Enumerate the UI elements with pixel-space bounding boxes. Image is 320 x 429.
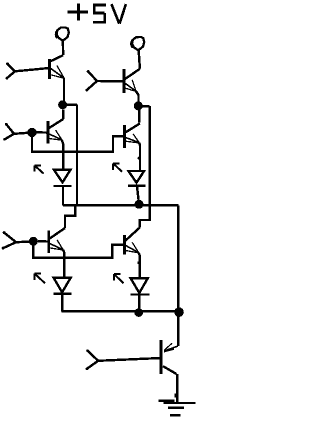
- input fork Q2 base: [85, 70, 97, 91]
- wire D4 cathode: [138, 295, 140, 312]
- junction dot A: [58, 100, 67, 109]
- transistor Q2: [97, 69, 140, 102]
- net M horizontal wire: [63, 204, 178, 206]
- transistor Q6: [124, 228, 140, 279]
- input fork Q7 base: [86, 349, 99, 370]
- wire dot A down to Q3 collector: [49, 110, 63, 128]
- junction dot E: [29, 237, 38, 246]
- junction dot F: [134, 308, 143, 317]
- wire T1 to Q1 collector: [62, 40, 65, 55]
- transistor Q5: [38, 228, 65, 278]
- wire dot A to right: [66, 103, 77, 105]
- wire D3 cathode: [61, 294, 63, 312]
- input fork Q3 base: [3, 123, 32, 141]
- LED D4 arrow: [114, 274, 123, 283]
- LED D3: [53, 278, 71, 294]
- wire step netM to Q5 collector: [65, 205, 75, 228]
- junction dot B: [134, 101, 143, 110]
- wire T2 to Q2 collector: [139, 50, 140, 69]
- LED D4: [131, 278, 150, 294]
- LED D2: [128, 171, 145, 186]
- wire vertical x77 down to net M: [76, 105, 78, 206]
- LED D3 arrow: [35, 274, 46, 284]
- row3 base link wire: [33, 245, 123, 258]
- wire step netM to Q6 collector: [140, 205, 150, 228]
- wire dot B to right: [142, 105, 150, 107]
- junction dot D2 cathode: [135, 200, 144, 209]
- +5V supply label: [68, 4, 126, 24]
- wire D2 cathode: [137, 186, 139, 201]
- input fork Q1 base: [6, 63, 16, 80]
- row2 base link wire: [32, 136, 123, 151]
- wire vertical x178 netM to bottom net: [177, 205, 179, 311]
- bottom net horizontal wire: [61, 310, 181, 312]
- transistor Q7 PNP: [98, 340, 178, 403]
- transistor Q4: [125, 125, 141, 170]
- wire dot G down to Q7 emitter: [177, 312, 179, 346]
- LED D2 arrow: [113, 164, 122, 172]
- input fork Q5 base: [2, 231, 34, 249]
- wire dot B down: [138, 110, 140, 123]
- transistor Q3: [37, 121, 64, 170]
- wire vertical x149 down to net M: [148, 106, 150, 204]
- junction dot C: [27, 128, 36, 137]
- +5V terminal bubble T1: [56, 27, 69, 40]
- LED D1 arrow: [35, 165, 44, 173]
- transistor Q1: [15, 55, 64, 101]
- Q4 collector diagonal: [126, 123, 140, 132]
- +5V terminal bubble T2: [131, 37, 144, 50]
- ground: [158, 401, 195, 415]
- wire D1 cathode: [62, 186, 64, 206]
- LED D1: [54, 170, 72, 186]
- junction dot G: [174, 307, 184, 317]
